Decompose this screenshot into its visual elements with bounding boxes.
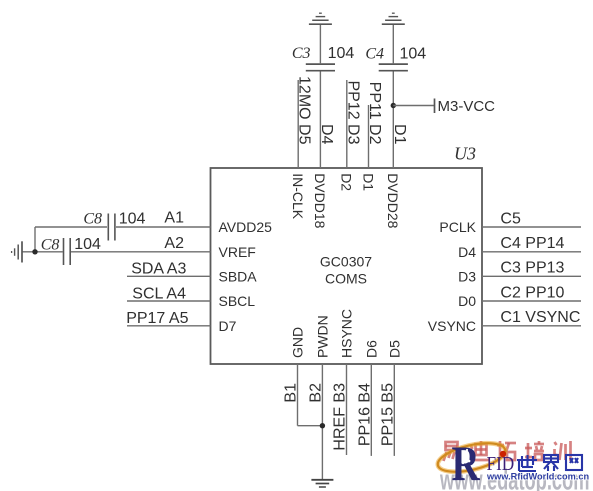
svg-text:www.RfidWorld.com.cn: www.RfidWorld.com.cn [486, 472, 589, 482]
svg-text:R: R [452, 435, 481, 491]
